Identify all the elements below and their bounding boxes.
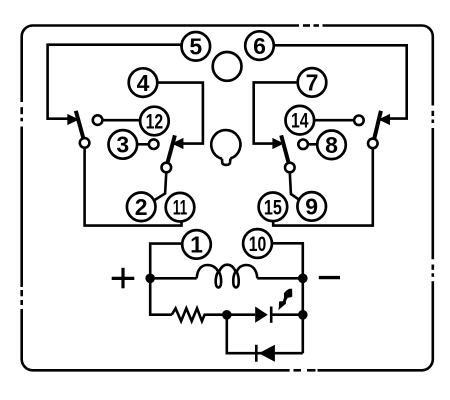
plus terminal label: [112, 268, 135, 289]
LED lightning arrow: [278, 289, 292, 310]
coil row wires: [150, 277, 303, 280]
protection diode loop wires: [227, 315, 303, 353]
pole-4 NO contact: [354, 116, 364, 126]
svg-text:9: 9: [305, 194, 318, 220]
junction node resistor-LED: [222, 310, 232, 320]
svg-text:2: 2: [135, 194, 148, 220]
pin 10: [243, 229, 272, 258]
wire pole-1 common to pin 11: [85, 148, 182, 226]
pin 8: [317, 131, 346, 160]
pin 2: [127, 193, 156, 222]
pin 1: [182, 230, 211, 259]
pin 9: [297, 192, 326, 221]
svg-text:10: 10: [249, 233, 267, 256]
wire resistor node to LED: [227, 313, 255, 316]
pole-2 pivot: [162, 163, 172, 173]
wire pin 14 to pole-4 NO contact: [313, 119, 354, 122]
wire from pin 4 to pole-2 fixed contact: [157, 83, 203, 144]
pole-1 movable lever: [76, 111, 83, 138]
pole-2 NO contact: [149, 139, 159, 149]
pin 7: [298, 68, 327, 97]
svg-text:7: 7: [306, 70, 319, 96]
enclosure outline (rounded case border with dash-dot breaks): [22, 26, 433, 371]
svg-text:14: 14: [291, 110, 309, 133]
resistor R: [172, 308, 227, 321]
svg-text:4: 4: [137, 70, 150, 96]
svg-text:5: 5: [189, 34, 202, 60]
relay coil L: [197, 265, 258, 288]
pole-3 pivot: [285, 163, 295, 173]
wire pin 1 to coil left node: [150, 244, 182, 279]
pin 12: [140, 107, 169, 136]
pole-1 pivot: [80, 138, 90, 148]
wire pin 10 to coil right node: [272, 243, 303, 278]
socket alignment circle (top center): [213, 52, 242, 81]
svg-text:12: 12: [146, 111, 164, 134]
svg-text:3: 3: [116, 132, 129, 158]
pin 5: [182, 32, 211, 61]
pole-1 fixed contact arrow: [67, 114, 79, 125]
pole-2 movable lever: [168, 135, 175, 162]
pole-4 movable lever: [374, 111, 381, 138]
socket keyhole mark (center): [211, 130, 240, 165]
wire pole-4 common to pin 15: [273, 148, 373, 225]
protection diode: [259, 345, 275, 362]
pole-2 fixed contact arrow: [172, 138, 184, 149]
junction node coil right / minus: [298, 274, 308, 284]
pole-4 pivot: [368, 139, 378, 149]
wire pole-2 common to pin 2: [153, 172, 166, 201]
wire from pin 7 to pole-3 fixed contact: [254, 82, 298, 143]
minus terminal label: [319, 276, 340, 279]
wire pole-1 NO contact to pin 12: [102, 119, 140, 122]
pole-3 movable lever: [281, 135, 288, 162]
right vertical wire (minus node down to diode row): [301, 278, 304, 353]
svg-text:6: 6: [253, 33, 266, 59]
svg-text:15: 15: [264, 196, 282, 219]
pole-1 NO contact: [93, 115, 103, 125]
svg-text:1: 1: [190, 232, 203, 258]
wire LED to minus node: [271, 313, 303, 316]
junction node LED-right: [298, 310, 308, 320]
pin 4: [129, 68, 158, 97]
pole-3 fixed contact arrow: [272, 138, 284, 149]
svg-text:11: 11: [173, 197, 188, 220]
pin 6: [245, 31, 274, 60]
wire pole-3 NO contact to pin 8: [308, 143, 317, 146]
pin 14: [286, 106, 315, 135]
wire from pin 6 to pole-4 fixed contact: [274, 45, 407, 118]
pin 3: [109, 130, 138, 159]
pole-3 NO contact: [298, 140, 308, 150]
svg-text:8: 8: [325, 132, 338, 158]
LED indicator diode: [255, 307, 268, 323]
pin 15: [259, 193, 288, 222]
junction node coil left: [145, 274, 155, 284]
wire from pin 5 to pole-1 fixed contact: [48, 45, 182, 119]
pin 11: [166, 193, 195, 222]
wire pin 3 to pole-2 NO contact: [136, 143, 149, 146]
wire pole-3 common to pin 9: [290, 172, 300, 200]
left drop wire to resistor row: [150, 278, 172, 314]
pole-4 fixed contact arrow: [378, 114, 390, 125]
